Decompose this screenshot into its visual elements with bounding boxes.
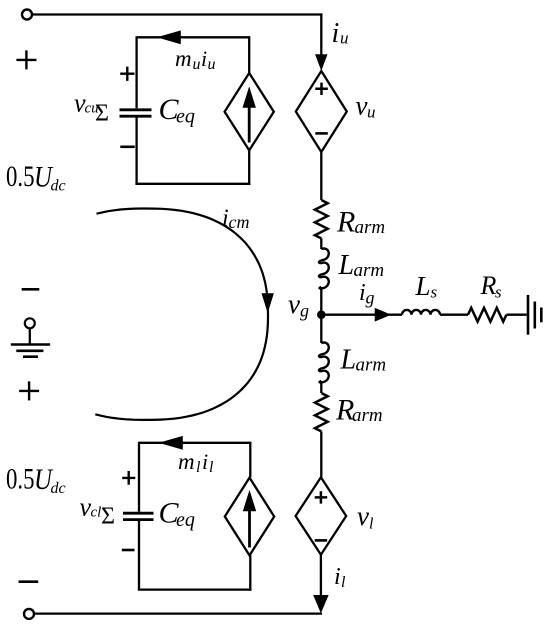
svg-text:u: u (367, 103, 376, 122)
wire v_g down (320, 315, 322, 343)
svg-text:L: L (340, 345, 357, 376)
label C_eq lower (159, 497, 195, 532)
bottom wire (35, 613, 322, 615)
wire box right upper (248, 36, 250, 73)
inductor L_arm upper (319, 249, 329, 289)
svg-text:l: l (196, 459, 201, 476)
svg-text:l: l (209, 459, 214, 476)
svg-text:dc: dc (51, 178, 66, 195)
arrow in current source lower (248, 510, 251, 548)
arrow m_l i_l (left) (160, 437, 182, 450)
wire top horizontal (32, 13, 322, 15)
arrow m_u i_u (left) on box top (158, 31, 180, 44)
label i_u (332, 18, 349, 49)
terminal bottom-left (24, 609, 34, 619)
wire top vertical down to v_u (320, 13, 322, 60)
resistor R_s (468, 308, 506, 322)
svg-text:l: l (369, 516, 374, 533)
label v_cu sigma (74, 89, 109, 127)
plus left top (16, 50, 36, 69)
wire box2 right upper (249, 442, 251, 478)
label m_l i_l (178, 449, 214, 476)
svg-text:u: u (193, 56, 201, 73)
label v_cl sigma (80, 493, 115, 530)
label 0.5Udc upper (6, 160, 66, 195)
arrow in current source upper (248, 107, 251, 143)
inductor L_arm lower (319, 343, 329, 383)
svg-text:Σ: Σ (101, 504, 115, 530)
resistor R_arm lower (315, 393, 328, 431)
ground right bar3 (540, 308, 543, 323)
label C_eq upper (159, 93, 195, 128)
svg-text:0.5: 0.5 (6, 463, 35, 496)
svg-text:v: v (357, 501, 369, 531)
wire R_arm to v_l (320, 431, 322, 477)
svg-text:u: u (340, 29, 349, 48)
plus left lower (19, 381, 39, 400)
wire v_g to L_s (321, 314, 402, 316)
minus in v_u (315, 132, 328, 135)
plus lower box (122, 471, 135, 485)
plus in v_l (315, 491, 328, 503)
svg-text:eq: eq (176, 106, 195, 128)
resistor R_arm upper (315, 200, 328, 238)
arc i_cm (95, 209, 268, 420)
svg-text:R: R (480, 271, 497, 300)
svg-text:arm: arm (352, 405, 383, 426)
wire R_arm to L_arm (320, 238, 322, 249)
source v_u diamond (296, 71, 347, 152)
svg-text:Σ: Σ (95, 101, 109, 127)
svg-text:v: v (356, 91, 368, 121)
svg-text:u: u (208, 56, 216, 73)
wire R_s to ground (506, 314, 526, 316)
wire box right lower (248, 150, 250, 185)
label L_arm lower (340, 345, 387, 376)
svg-text:L: L (338, 250, 355, 281)
svg-text:l: l (341, 574, 346, 591)
wire box2 right lower (249, 555, 251, 591)
wire box bottom (135, 183, 250, 185)
label v_l (357, 501, 374, 533)
label v_u (356, 91, 376, 122)
current source m_u i_u diamond (225, 73, 274, 150)
svg-text:arm: arm (356, 355, 387, 376)
plus in v_u (315, 83, 328, 95)
svg-text:dc: dc (51, 480, 66, 497)
svg-text:i: i (202, 449, 208, 474)
minus upper box (120, 146, 135, 149)
svg-text:m: m (175, 46, 192, 71)
arrow i_u (down) (316, 55, 327, 70)
svg-text:m: m (178, 449, 195, 474)
svg-text:g: g (300, 301, 309, 321)
minus in v_l (315, 539, 328, 542)
label i_l (334, 564, 346, 591)
svg-text:i: i (334, 564, 341, 590)
wire v_l down (320, 555, 322, 600)
svg-text:s: s (431, 283, 438, 302)
label R_arm lower (335, 394, 383, 427)
current source m_l i_l diamond (225, 478, 274, 556)
wire box left lower (135, 118, 137, 184)
wire L_arm to v_g (320, 287, 322, 315)
minus lower box (122, 549, 135, 552)
arrow i_l (down) (314, 596, 328, 613)
wire box top (137, 36, 250, 38)
label m_u i_u (175, 46, 216, 73)
wire v_u to R_arm (320, 152, 322, 200)
svg-text:arm: arm (355, 217, 386, 238)
svg-text:0.5: 0.5 (6, 160, 35, 193)
terminal top-left (22, 10, 32, 20)
wire L_s to R_s (440, 314, 468, 316)
plus upper box (120, 67, 134, 81)
ground right (rotated) bar1 (527, 295, 530, 335)
label L_s (415, 271, 438, 302)
ground right bar2 (533, 302, 536, 329)
minus left mid (22, 288, 40, 291)
svg-text:g: g (366, 288, 375, 308)
arrow i_g (375, 309, 390, 321)
svg-text:cm: cm (229, 212, 250, 232)
label i_g (359, 280, 375, 308)
svg-text:R: R (336, 206, 355, 239)
source v_l diamond (296, 477, 347, 554)
capacitor C_eq lower (123, 513, 154, 519)
wire box2 top (139, 442, 250, 444)
svg-text:s: s (495, 283, 502, 302)
inductor L_s (402, 310, 440, 315)
label R_arm upper (336, 206, 385, 239)
wire box2 left upper (138, 442, 140, 512)
svg-text:cl: cl (91, 505, 102, 521)
label 0.5Udc lower (6, 463, 66, 498)
wire box2 bottom (138, 588, 252, 590)
wire box left upper (135, 36, 137, 108)
label R_s (480, 271, 503, 302)
ground symbol left (25, 318, 35, 328)
svg-text:i: i (201, 46, 207, 71)
svg-text:eq: eq (176, 509, 195, 531)
svg-text:i: i (332, 18, 340, 49)
svg-text:arm: arm (354, 260, 385, 281)
label i_cm (222, 206, 250, 233)
capacitor C_eq upper (120, 110, 152, 116)
wire box2 left lower (138, 521, 140, 590)
label L_arm upper (338, 250, 385, 281)
label v_g (288, 289, 309, 321)
minus left bottom (19, 580, 39, 583)
node v_g (317, 310, 326, 319)
svg-text:L: L (415, 271, 431, 301)
wire L_arm to R_arm lower (320, 381, 322, 393)
arrowhead on arc (262, 294, 273, 312)
svg-text:v: v (288, 289, 300, 319)
